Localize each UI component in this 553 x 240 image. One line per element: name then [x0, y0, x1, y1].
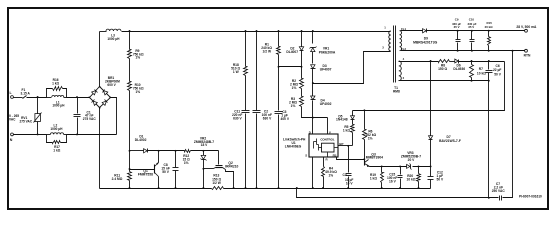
wire ground rail to Y line: [297, 189, 499, 198]
wire bridge top to rail: [99, 32, 101, 87]
wire VR3 to C12: [413, 166, 431, 168]
diode D7 BAV21WS-7-F column: [430, 60, 432, 62]
svg-text:V: V: [329, 130, 331, 134]
svg-text:1 kΩ: 1 kΩ: [52, 81, 59, 85]
junction rail-R9: [129, 30, 131, 32]
svg-text:16 V: 16 V: [346, 181, 354, 185]
svg-text:FB: FB: [333, 153, 337, 157]
svg-text:UF4007: UF4007: [320, 67, 332, 71]
svg-text:MBRS4201T3G: MBRS4201T3G: [413, 40, 437, 44]
svg-text:D: D: [309, 130, 311, 134]
resistor R4 49.9 kOhm: [323, 158, 325, 167]
fuse F1: [14, 97, 23, 99]
svg-text:BAV21WS-7-F: BAV21WS-7-F: [439, 139, 461, 143]
resistor R3 2 MOhm: [300, 97, 304, 107]
svg-text:35 V: 35 V: [468, 25, 474, 29]
junction D1-Q1 node: [158, 150, 160, 152]
resistor R6 162 kOhm: [364, 111, 366, 130]
resistor R9 750 kOhm: [129, 32, 131, 50]
capacitor C8 15 nF: [175, 151, 177, 168]
bridge rectifier BR1 2KBP06M 600 V: [90, 87, 111, 108]
wire secondary bottom RTN rail: [401, 50, 525, 52]
junction N-RV1: [37, 133, 39, 135]
svg-text:28 V, 500 mA: 28 V, 500 mA: [516, 25, 537, 29]
svg-text:10 kΩ: 10 kΩ: [477, 72, 486, 76]
junction BP-C4: [347, 145, 349, 147]
resistor R12 15 Ohm: [185, 150, 191, 153]
capacitor C6 22 uF 50 V: [488, 60, 490, 62]
junction C1 top: [76, 96, 78, 98]
wire bridge right vertex to N: [111, 98, 117, 135]
capacitor C1 47 nF 275 VAC: [77, 98, 79, 114]
diode D6 DL4936: [455, 59, 458, 63]
svg-text:1000 µH: 1000 µH: [52, 104, 65, 108]
svg-text:1000 µH: 1000 µH: [50, 127, 63, 131]
wire N to bridge: [67, 134, 117, 136]
svg-text:LNK406EG: LNK406EG: [285, 145, 302, 149]
svg-text:35 V: 35 V: [454, 25, 460, 29]
varistor RV1 275 VAC: [37, 98, 39, 114]
wire L1 to bridge: [67, 97, 90, 99]
svg-text:400 V: 400 V: [281, 117, 290, 121]
svg-text:1%: 1%: [135, 90, 140, 94]
ground rail right section: [224, 188, 431, 190]
wire bias feed long: [353, 62, 505, 111]
svg-text:1%: 1%: [135, 56, 140, 60]
wire N to filter: [14, 134, 47, 136]
capacitor C12 1 uF 50 V: [430, 167, 432, 177]
junction C12 top: [430, 165, 432, 167]
svg-text:1 W: 1 W: [233, 70, 240, 74]
svg-text:DL4002: DL4002: [135, 138, 147, 142]
op-amp U1 LNK406EG LinkSwitch-PH: [309, 134, 338, 157]
svg-text:600 V: 600 V: [107, 83, 116, 87]
svg-text:1000 µH: 1000 µH: [107, 37, 120, 41]
transformer secondary: [400, 31, 402, 51]
resistor R7 10 kOhm: [471, 60, 473, 62]
capacitor C10 330 uF 35 V: [471, 30, 473, 32]
junction L-RV1: [37, 96, 39, 98]
svg-text:N: N: [10, 138, 13, 142]
svg-text:1/2 W: 1/2 W: [263, 50, 272, 54]
wire secondary top: [401, 30, 423, 32]
capacitor C11 220 nF 630 V: [242, 110, 250, 112]
wire FB to Q3: [337, 158, 365, 160]
capacitor C9 330 uF 35 V: [457, 30, 459, 32]
diode D1 DL4002: [130, 150, 144, 152]
svg-text:CONTROL: CONTROL: [320, 138, 335, 142]
capacitor C15 100 nF 16 V: [399, 165, 401, 167]
wire top DC rail: [122, 31, 391, 33]
wire BP: [339, 145, 353, 147]
svg-text:275 VAC: 275 VAC: [83, 117, 97, 121]
resistor R18 510 Ohm 1 W: [245, 30, 247, 32]
transistor Q1 FMMT558: [158, 151, 160, 163]
wire Q3 to VR3: [370, 166, 407, 168]
svg-text:1 kΩ: 1 kΩ: [343, 129, 351, 133]
resistor R20 10 kOhm: [418, 165, 420, 167]
transformer bias winding: [399, 61, 401, 81]
svg-text:RTN: RTN: [524, 54, 531, 58]
wire bias bottom: [399, 80, 489, 82]
wire bridge bottom to ground rail: [99, 108, 101, 189]
diode D5 1N4148: [352, 111, 354, 116]
capacitor C3 1 uF 400 V: [275, 111, 283, 113]
tvs VR1 P6KE200A: [312, 32, 314, 44]
svg-text:3.15 A: 3.15 A: [21, 92, 31, 96]
svg-text:1N4148: 1N4148: [336, 118, 348, 122]
junction D1 tap: [129, 150, 131, 152]
wire bias return down: [488, 81, 490, 198]
svg-text:275 VAC: 275 VAC: [19, 119, 32, 123]
transformer T1 RM8 primary: [389, 31, 391, 51]
transistor Q3 MMBT3904: [363, 158, 365, 160]
svg-text:UF4002: UF4002: [320, 102, 332, 106]
capacitor C4 10 uF 16 V: [348, 146, 350, 173]
svg-text:16 V: 16 V: [389, 179, 397, 183]
inductor L2 1000 uH: [50, 133, 63, 135]
wire R10 down: [129, 91, 131, 172]
transistor Q2 IRFR210 mosfet: [216, 165, 223, 167]
junction D4-Vwire: [312, 117, 314, 119]
diode D9 MBRS4201T3G: [423, 29, 427, 33]
node L input terminal: [11, 96, 14, 99]
junction dots ground rail: [129, 187, 131, 189]
wire RTN to Y cap: [503, 51, 513, 198]
wire R2-R3: [301, 89, 303, 97]
svg-text:P6KE200A: P6KE200A: [319, 51, 336, 55]
svg-text:1 kΩ: 1 kΩ: [53, 148, 60, 152]
svg-text:20 V: 20 V: [408, 158, 416, 162]
wire V pin drop: [327, 118, 329, 135]
resistor R15 20 kOhm: [488, 30, 490, 32]
wire R9-R10: [129, 59, 131, 82]
resistor R10 750 kOhm: [128, 82, 132, 91]
svg-text:1 kΩ: 1 kΩ: [370, 177, 378, 181]
resistor R11 2.4 MOhm: [128, 172, 132, 181]
svg-text:630 V: 630 V: [263, 116, 272, 120]
resistor R13 150 Ohm 1/2 W in ground rail: [212, 187, 224, 190]
wire S pin to rail: [312, 158, 314, 189]
svg-text:50 V: 50 V: [494, 72, 502, 76]
node output positive terminal: [525, 29, 528, 32]
junction C1 bottom: [76, 133, 78, 135]
diode D3 UF4007: [311, 65, 315, 69]
junction feed-R6: [363, 109, 365, 111]
svg-text:1%: 1%: [328, 173, 333, 177]
zener VR3 ZMM5250B-7 20 V: [407, 164, 410, 168]
svg-text:DL4007: DL4007: [286, 50, 298, 54]
wire R3 to V-pin wire: [302, 107, 328, 118]
junction rail-VR1: [312, 30, 314, 32]
resistor R5 1 kOhm: [351, 125, 355, 133]
junction drain-transformer tap: [312, 82, 314, 84]
wire drain to primary: [313, 52, 391, 84]
zener VR2 ZMM5248B-7 18 V: [203, 151, 205, 156]
resistor R2 2 MOhm: [300, 79, 304, 89]
svg-text:IRFR210: IRFR210: [225, 164, 238, 168]
svg-text:S: S: [305, 154, 307, 158]
svg-text:1%: 1%: [291, 104, 296, 108]
svg-text:RM8: RM8: [393, 90, 400, 94]
svg-text:1%: 1%: [292, 86, 297, 90]
svg-text:50 V: 50 V: [162, 170, 170, 174]
svg-text:18 V: 18 V: [201, 143, 209, 147]
svg-text:C4: C4: [343, 173, 347, 177]
inductor L1 1000 uH: [52, 96, 64, 97]
resistor R17 1 kOhm parallel loop: [47, 135, 53, 143]
svg-text:1/2 W: 1/2 W: [212, 181, 221, 185]
capacitor C2 100 nF 630 V: [256, 30, 258, 32]
resistor R1 240 kOhm 1/2 W: [278, 30, 280, 32]
resistor R16 1 kOhm parallel loop: [47, 89, 53, 98]
ground rail left section: [100, 188, 212, 190]
svg-text:1%: 1%: [368, 136, 373, 140]
svg-text:20 kΩ: 20 kΩ: [485, 25, 494, 29]
node RTN terminal: [525, 49, 528, 52]
wire damper gate line: [148, 150, 185, 152]
transformer core: [393, 26, 395, 83]
node N input terminal: [11, 133, 14, 136]
junction VR2 top: [202, 150, 204, 152]
svg-text:VAC: VAC: [9, 118, 16, 122]
svg-text:2.4 MΩ: 2.4 MΩ: [112, 177, 123, 181]
inductor L3 1000 uH: [100, 31, 107, 33]
junction VR2 source node: [202, 168, 204, 170]
junction Q1 base tap: [129, 168, 131, 170]
svg-text:DL4936: DL4936: [453, 67, 465, 71]
svg-text:R7: R7: [479, 67, 483, 71]
svg-text:250 VAC: 250 VAC: [492, 189, 506, 193]
svg-text:150 Ω: 150 Ω: [438, 67, 447, 71]
svg-text:FMMT558: FMMT558: [138, 172, 153, 176]
svg-text:PI-6007-091610: PI-6007-091610: [519, 194, 542, 198]
svg-text:50 V: 50 V: [436, 177, 444, 181]
svg-text:MMBT3904: MMBT3904: [366, 156, 383, 160]
svg-text:630 V: 630 V: [233, 116, 242, 120]
junction C8 top: [175, 150, 177, 152]
diode D2 DL4007: [301, 30, 303, 32]
wire bias top: [399, 61, 439, 63]
resistor R19 1 kOhm: [381, 165, 383, 167]
capacitor C7 2.2 nF 250 VAC: [499, 196, 501, 201]
svg-text:10 kΩ: 10 kΩ: [407, 177, 416, 181]
svg-text:1%: 1%: [184, 161, 189, 165]
diode D4 UF4002: [311, 96, 315, 100]
junction R1-D2 link wire: [278, 66, 280, 68]
resistor R8 150 Ohm: [439, 60, 450, 63]
